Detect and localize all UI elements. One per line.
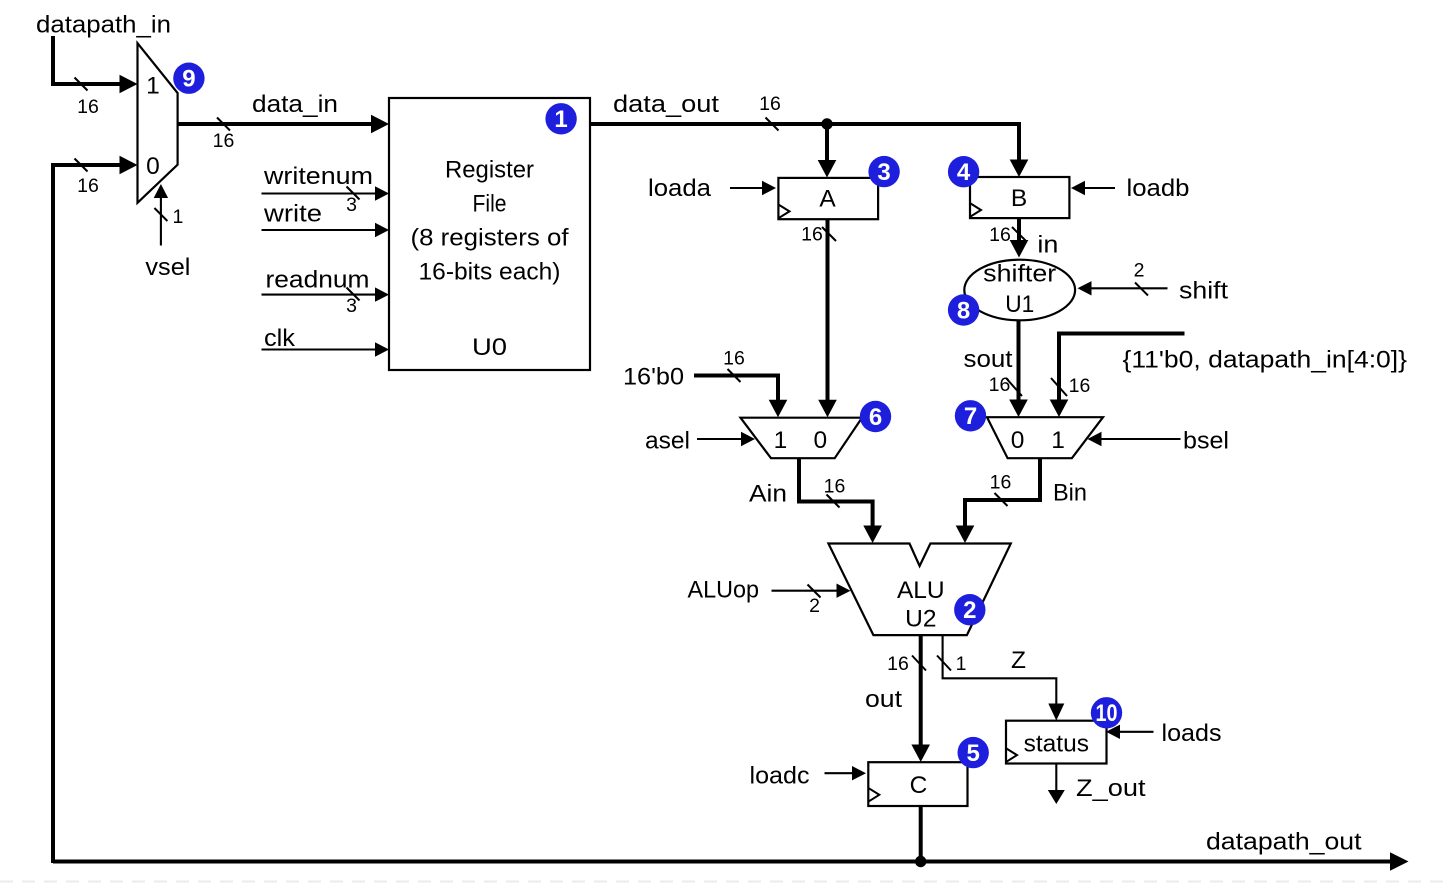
register file U0 box (389, 98, 590, 370)
svg-text:16: 16 (989, 224, 1011, 246)
svg-text:0: 0 (813, 427, 827, 454)
svg-text:1: 1 (956, 653, 967, 675)
wire Z_out from status (1055, 764, 1057, 792)
wire loads (1119, 731, 1154, 733)
slash bus mark on vsel wire (154, 208, 167, 221)
wire Bin from mux 7 to ALU (965, 458, 1040, 526)
svg-text:{11'b0, datapath_in[4:0]}: {11'b0, datapath_in[4:0]} (1123, 347, 1408, 374)
wire asel select (697, 438, 742, 440)
svg-text:Z_out: Z_out (1076, 775, 1146, 802)
slash bus mark on A output (822, 227, 836, 241)
badge 7 (955, 400, 986, 431)
ALU U2 body (828, 544, 1010, 636)
slash bus mark on datapath_in[4:0] wire (1051, 378, 1067, 396)
badge 2 (954, 594, 985, 625)
svg-text:2: 2 (1134, 260, 1145, 282)
svg-text:1: 1 (774, 427, 788, 454)
svg-text:U0: U0 (472, 334, 507, 361)
svg-text:loadc: loadc (750, 763, 810, 790)
svg-text:8: 8 (957, 297, 970, 324)
slash bus mark on data_in (217, 118, 230, 131)
badge 8 (948, 294, 979, 325)
badge 9 (173, 62, 204, 93)
svg-text:3: 3 (346, 295, 357, 317)
svg-text:0: 0 (1011, 427, 1025, 454)
svg-text:shifter: shifter (983, 261, 1056, 288)
svg-text:vsel: vsel (145, 254, 190, 281)
wire register C output to rail (919, 806, 923, 862)
wire {11'b0, datapath_in[4:0]} into mux 7 (1059, 334, 1185, 401)
svg-text:clk: clk (264, 325, 296, 352)
svg-text:writenum: writenum (263, 163, 373, 190)
svg-text:loadb: loadb (1127, 175, 1190, 202)
svg-text:16-bits each): 16-bits each) (419, 259, 561, 286)
slash bus mark on feedback wire (75, 159, 88, 172)
wire loadc (825, 772, 854, 774)
wire ALUop control (772, 590, 838, 592)
slash bus mark on Ain (827, 495, 840, 508)
svg-text:data_in: data_in (252, 91, 338, 118)
svg-text:16: 16 (990, 472, 1012, 494)
wire data_out bus from register file (590, 124, 1019, 160)
wire shift control (1091, 287, 1168, 289)
svg-text:(8 registers of: (8 registers of (411, 225, 569, 252)
slash bus mark on readnum (347, 288, 360, 301)
svg-text:data_out: data_out (613, 91, 719, 118)
slash bus mark on ALUop (808, 585, 821, 598)
svg-text:6: 6 (869, 404, 882, 431)
wire register B output into shifter (1017, 218, 1021, 240)
slash bus mark on writenum (347, 187, 360, 200)
svg-text:1: 1 (1051, 427, 1065, 454)
wire ALU out down to register C (919, 635, 923, 745)
badge 4 (948, 156, 979, 187)
svg-text:Bin: Bin (1053, 480, 1087, 507)
wire bsel select (1101, 438, 1181, 440)
status register box (1006, 721, 1107, 764)
svg-text:datapath_out: datapath_out (1206, 829, 1362, 856)
register A box (778, 178, 878, 219)
wire data_in from mux 9 to register file (178, 122, 373, 126)
shifter U1 ellipse (964, 260, 1075, 321)
svg-text:ALU: ALU (897, 577, 945, 604)
svg-text:1: 1 (173, 206, 184, 228)
svg-text:write: write (263, 201, 322, 228)
register B clock chevron (971, 204, 981, 217)
svg-text:16: 16 (213, 130, 235, 152)
faint dotted edge at bottom (0, 881, 1444, 883)
slash bus mark on B output (1012, 227, 1026, 241)
svg-text:16'b0: 16'b0 (623, 364, 684, 391)
svg-text:sout: sout (964, 346, 1013, 373)
svg-text:Ain: Ain (749, 481, 787, 508)
svg-text:File: File (473, 191, 507, 218)
slash bus mark on shift (1135, 283, 1148, 296)
svg-text:Z: Z (1011, 647, 1026, 674)
svg-text:7: 7 (964, 403, 977, 430)
mux 6 body (741, 418, 863, 459)
junction dot on data_out (821, 118, 832, 129)
arrowhead into register B (1010, 160, 1029, 178)
svg-text:U2: U2 (905, 605, 936, 632)
svg-text:5: 5 (967, 740, 980, 767)
svg-text:16: 16 (77, 96, 99, 118)
status clock chevron (1007, 749, 1017, 762)
wire datapath_in stub into mux 9 input 1 (53, 36, 121, 84)
svg-text:0: 0 (146, 153, 160, 180)
svg-text:A: A (819, 186, 836, 213)
wire branch down into register A (825, 124, 829, 160)
wire loada (730, 187, 763, 189)
svg-text:1: 1 (146, 73, 160, 100)
wire 16'b0 constant into mux 6 (694, 376, 778, 401)
svg-text:16: 16 (77, 175, 99, 197)
slash bus mark on sout (1006, 378, 1022, 396)
wire loadb (1084, 187, 1115, 189)
svg-text:3: 3 (877, 159, 890, 186)
wire Ain from mux 6 to ALU (799, 458, 873, 526)
svg-text:4: 4 (957, 159, 971, 186)
wire clk (262, 348, 377, 350)
badge 5 (958, 737, 989, 768)
svg-text:loads: loads (1162, 720, 1222, 747)
datapath_out rail (53, 860, 1391, 864)
svg-text:readnum: readnum (266, 267, 370, 294)
svg-text:9: 9 (182, 66, 195, 93)
svg-text:Register: Register (445, 157, 534, 184)
wire feedback from datapath_out rail to mux 9 input 0 (53, 165, 121, 863)
svg-text:out: out (865, 686, 902, 713)
register C box (868, 762, 967, 806)
slash bus mark on datapath_in stub (75, 78, 88, 91)
badge 1 (545, 103, 576, 134)
wire Z flag from ALU to status (943, 635, 1057, 704)
svg-text:1: 1 (554, 106, 567, 133)
svg-text:shift: shift (1179, 278, 1228, 305)
svg-text:16: 16 (824, 476, 846, 498)
svg-text:16: 16 (887, 653, 909, 675)
slash bus mark on 16'b0 wire (728, 369, 741, 382)
svg-text:16: 16 (723, 348, 745, 370)
svg-text:U1: U1 (1005, 291, 1034, 318)
mux 9 (vsel mux) body (138, 43, 178, 203)
svg-text:C: C (910, 772, 928, 799)
mux 7 body (987, 417, 1103, 458)
svg-text:10: 10 (1096, 700, 1118, 727)
svg-text:bsel: bsel (1183, 428, 1229, 455)
svg-text:datapath_in: datapath_in (36, 12, 171, 39)
junction dot on rail (915, 856, 926, 867)
slash bus mark on Z (937, 656, 951, 671)
slash bus mark on data_out (766, 118, 779, 131)
slash bus mark on Bin (995, 493, 1008, 506)
wire write (262, 229, 377, 231)
svg-text:B: B (1011, 185, 1027, 212)
badge 3 (868, 156, 899, 187)
badge 6 (860, 401, 891, 432)
svg-text:status: status (1024, 731, 1089, 758)
register C clock chevron (869, 788, 879, 801)
svg-text:16: 16 (759, 93, 781, 115)
wire readnum (262, 294, 377, 296)
svg-text:loada: loada (648, 175, 711, 202)
svg-text:asel: asel (645, 428, 690, 455)
wire vsel select (160, 197, 162, 246)
badge 10 (1091, 697, 1122, 728)
svg-text:in: in (1037, 232, 1058, 259)
slash bus mark on ALU out (912, 656, 926, 671)
wire writenum (262, 192, 377, 194)
register B box (970, 177, 1069, 218)
wire sout from shifter to mux 7 (1017, 320, 1021, 400)
svg-text:2: 2 (809, 595, 820, 617)
svg-text:2: 2 (963, 597, 976, 624)
svg-text:16: 16 (1069, 375, 1091, 397)
svg-text:ALUop: ALUop (688, 577, 760, 604)
svg-text:16: 16 (989, 374, 1011, 396)
svg-text:16: 16 (801, 224, 823, 246)
wire register A output down to mux 6 (826, 219, 830, 400)
register A clock chevron (779, 205, 790, 218)
svg-text:3: 3 (346, 194, 357, 216)
